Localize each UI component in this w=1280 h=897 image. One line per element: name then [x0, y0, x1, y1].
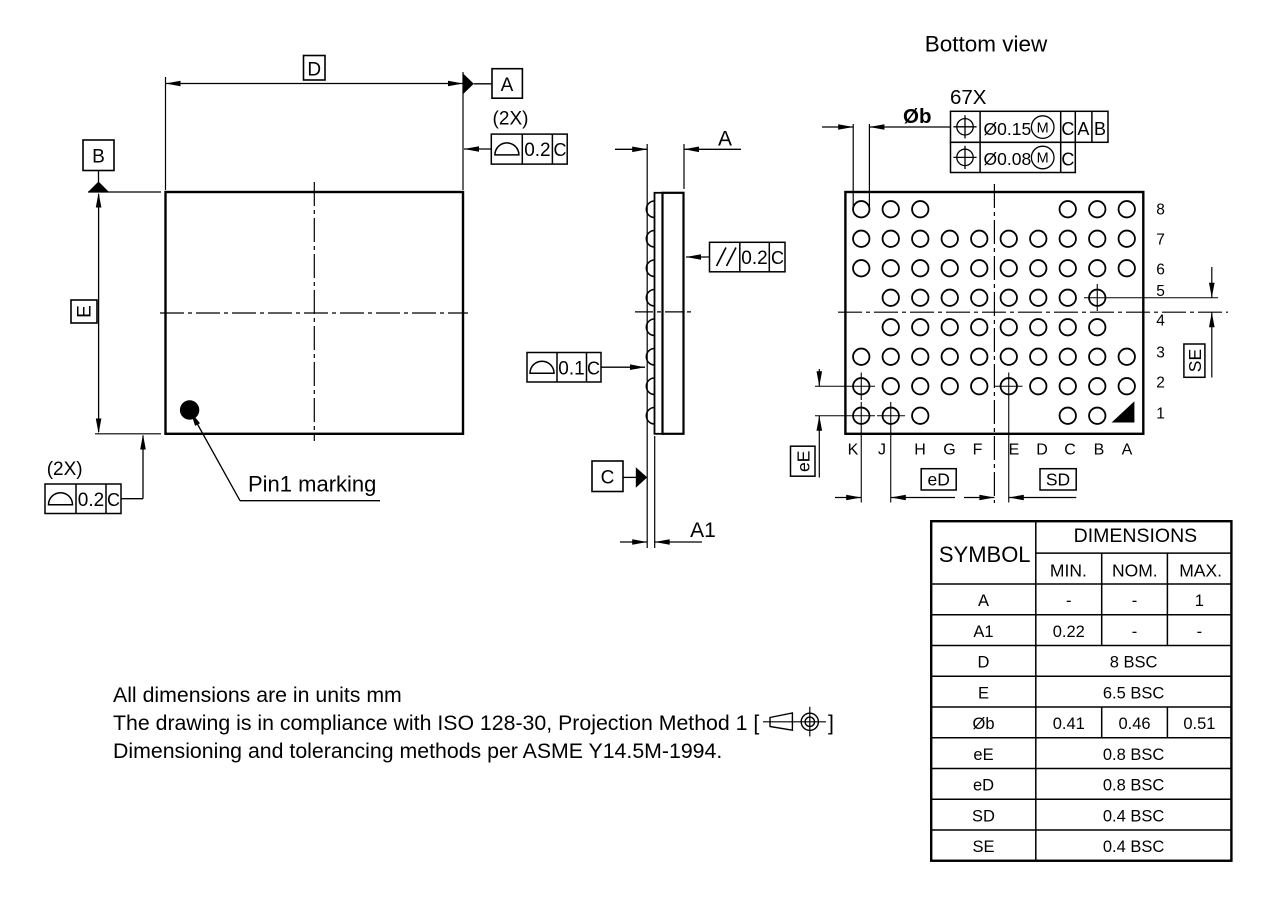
datum B label box — [83, 140, 114, 171]
SE dimension lines and arrows — [1211, 267, 1213, 298]
pin1 marking dot — [180, 400, 199, 419]
dimension A1 line with arrows — [620, 541, 647, 543]
svg-text:C: C — [601, 468, 615, 489]
dimension D label box — [304, 56, 326, 81]
svg-text:8 BSC: 8 BSC — [1110, 654, 1158, 672]
dimension A line with arrows — [615, 148, 647, 150]
datum B stem and filled triangle — [98, 171, 100, 183]
datum C label box — [592, 461, 623, 492]
svg-text:E: E — [978, 684, 989, 702]
svg-text:C: C — [587, 358, 600, 378]
svg-text:Øb: Øb — [972, 715, 994, 733]
svg-text:NOM.: NOM. — [1112, 561, 1158, 581]
svg-text:DIMENSIONS: DIMENSIONS — [1074, 525, 1198, 547]
svg-text:0.46: 0.46 — [1118, 715, 1150, 733]
datum A filled triangle — [463, 73, 474, 94]
side view horizontal centerline — [635, 311, 693, 313]
svg-text:0.51: 0.51 — [1183, 715, 1215, 733]
svg-text:0.4 BSC: 0.4 BSC — [1103, 807, 1165, 825]
top view horizontal centerline — [160, 312, 468, 314]
svg-text:SE: SE — [972, 838, 994, 856]
svg-text:A: A — [1122, 442, 1133, 459]
svg-text:SD: SD — [1046, 470, 1070, 490]
top view package body outline — [166, 192, 464, 434]
svg-text:0.22: 0.22 — [1053, 623, 1085, 641]
position tolerance frame row 1 — [951, 111, 1109, 142]
position tolerance frame row 2 — [951, 142, 1076, 172]
profile leader arrow — [601, 366, 645, 368]
svg-text:SYMBOL: SYMBOL — [939, 542, 1031, 567]
svg-text:E: E — [1009, 442, 1020, 459]
svg-text:-: - — [1132, 623, 1138, 641]
SE label box — [1184, 344, 1205, 377]
crosshair on ball B5 — [1084, 297, 1218, 299]
svg-text:Ø0.15: Ø0.15 — [984, 119, 1032, 139]
svg-text:C: C — [1064, 442, 1076, 459]
svg-text:All dimensions are in units mm: All dimensions are in units mm — [113, 683, 402, 707]
svg-text:8: 8 — [1156, 202, 1165, 219]
dimension A extension line right — [683, 144, 685, 189]
bottom view vertical centerline — [993, 184, 995, 503]
svg-text:C: C — [1061, 150, 1074, 170]
first angle projection symbol cone — [770, 713, 792, 730]
svg-text:B: B — [92, 147, 105, 168]
dimensions table outer frame and grid — [931, 521, 1231, 861]
svg-text:Ø0.08: Ø0.08 — [984, 149, 1032, 169]
pin1 corner triangle A1 — [1112, 401, 1135, 422]
svg-text:The drawing is in compliance w: The drawing is in compliance with ISO 12… — [113, 711, 759, 735]
svg-text:D: D — [307, 60, 321, 81]
svg-text:6.5 BSC: 6.5 BSC — [1103, 684, 1165, 702]
SD label box — [1040, 469, 1076, 490]
dimension E line with arrows — [98, 194, 100, 432]
svg-text:2: 2 — [1156, 375, 1165, 392]
svg-text:-: - — [1132, 592, 1138, 610]
SD dimension line and arrows — [964, 497, 994, 499]
svg-text:eD: eD — [928, 470, 950, 490]
svg-text:3: 3 — [1156, 345, 1165, 362]
svg-text:A1: A1 — [973, 623, 993, 641]
svg-text:C: C — [1061, 119, 1074, 139]
pin1 marking leader line — [196, 422, 240, 501]
lower datum dim leader vertical with arrow — [142, 436, 144, 499]
first angle projection symbol circles — [801, 713, 818, 730]
svg-text:(2X): (2X) — [493, 109, 529, 130]
svg-text:F: F — [973, 442, 983, 459]
eD dimension line and arrows — [835, 497, 861, 499]
crosshair on ball K1 — [815, 415, 875, 417]
top view vertical centerline — [313, 182, 315, 441]
svg-text:MAX.: MAX. — [1179, 561, 1222, 581]
svg-text:0.1: 0.1 — [558, 358, 584, 379]
svg-text:C: C — [554, 140, 567, 160]
svg-text:MIN.: MIN. — [1050, 561, 1087, 581]
svg-text:]: ] — [828, 711, 834, 735]
svg-text:4: 4 — [1156, 313, 1165, 330]
dimension D line with arrows — [166, 83, 464, 85]
svg-text:0.2: 0.2 — [524, 140, 550, 161]
svg-text:G: G — [943, 442, 955, 459]
svg-text:H: H — [914, 442, 926, 459]
svg-text:A: A — [501, 75, 514, 96]
svg-text:-: - — [1066, 592, 1072, 610]
bottom-left extension line — [95, 433, 161, 435]
svg-text:A: A — [718, 128, 732, 151]
side view seating plane line (datum C) — [646, 144, 648, 548]
svg-text:D: D — [1036, 442, 1048, 459]
svg-text:M: M — [1037, 151, 1049, 167]
svg-text:C: C — [107, 490, 120, 510]
svg-text:Pin1 marking: Pin1 marking — [248, 472, 376, 497]
feature control frame profile 0.2 C (bottom left) — [45, 484, 121, 514]
svg-text:A1: A1 — [690, 519, 716, 542]
eE dimension lines and arrows — [818, 369, 820, 386]
svg-text:SE: SE — [1185, 349, 1205, 372]
bottom view horizontal centerline — [838, 311, 1228, 313]
svg-text:B: B — [1094, 119, 1106, 139]
solder ball grid 67 balls — [853, 201, 869, 217]
eD label box — [921, 469, 956, 490]
svg-text:J: J — [878, 442, 886, 459]
svg-text:eD: eD — [973, 777, 994, 795]
svg-text:1: 1 — [1195, 592, 1204, 610]
crosshair on ball K2 — [815, 385, 875, 387]
svg-text:0.8 BSC: 0.8 BSC — [1103, 746, 1165, 764]
svg-text:Bottom view: Bottom view — [925, 32, 1048, 57]
svg-text:SD: SD — [972, 807, 995, 825]
dimension E label box — [71, 300, 97, 323]
svg-text:E: E — [75, 305, 96, 318]
svg-text:6: 6 — [1156, 262, 1165, 279]
leader arrow from frame to edge — [464, 148, 491, 150]
eE label box — [791, 446, 816, 476]
dimension D extension lines — [165, 77, 167, 190]
svg-text:1: 1 — [1156, 406, 1165, 423]
datum C leader and filled triangle — [623, 476, 636, 478]
svg-text:D: D — [978, 654, 990, 672]
svg-text:K: K — [848, 442, 859, 459]
datum A label box — [492, 69, 522, 99]
svg-text:5: 5 — [1156, 283, 1165, 300]
svg-text:67X: 67X — [950, 86, 987, 109]
svg-text:B: B — [1094, 442, 1105, 459]
svg-text:Dimensioning and tolerancing m: Dimensioning and tolerancing methods per… — [113, 739, 722, 763]
crosshair on ball J1 — [877, 415, 905, 417]
svg-text:0.2: 0.2 — [78, 490, 104, 511]
side view solder balls (8 semicircles) — [646, 201, 654, 217]
side view substrate strip — [655, 193, 663, 434]
svg-text:M: M — [1037, 120, 1049, 136]
bottom view package outline — [845, 192, 1143, 434]
svg-text:(2X): (2X) — [47, 459, 83, 480]
svg-text:C: C — [771, 248, 784, 268]
dimension A1 extension line — [654, 436, 656, 548]
svg-text:-: - — [1197, 623, 1203, 641]
svg-text:Øb: Øb — [903, 105, 931, 128]
svg-text:eE: eE — [793, 451, 813, 472]
side view package body — [663, 193, 684, 434]
svg-text:A: A — [1077, 119, 1089, 139]
svg-text:0.8 BSC: 0.8 BSC — [1103, 777, 1165, 795]
diameter b tangent extension lines — [852, 124, 854, 212]
svg-text:eE: eE — [973, 746, 993, 764]
svg-text:A: A — [978, 592, 989, 610]
svg-text:0.41: 0.41 — [1053, 715, 1085, 733]
parallelism leader arrow — [686, 256, 710, 258]
parallelism feature control frame // 0.2 C — [710, 242, 786, 271]
profile feature control frame 0.1 C (side) — [527, 353, 601, 383]
diameter b dimension arrows — [822, 126, 853, 128]
svg-text:7: 7 — [1156, 232, 1165, 249]
top view top-left extension line — [88, 191, 161, 193]
crosshair on ball E2 — [995, 385, 1023, 387]
svg-text:0.4 BSC: 0.4 BSC — [1103, 838, 1165, 856]
feature control frame profile 0.2 C (top right) — [491, 134, 567, 164]
svg-text:0.2: 0.2 — [741, 248, 767, 269]
datum A leader — [474, 83, 492, 85]
